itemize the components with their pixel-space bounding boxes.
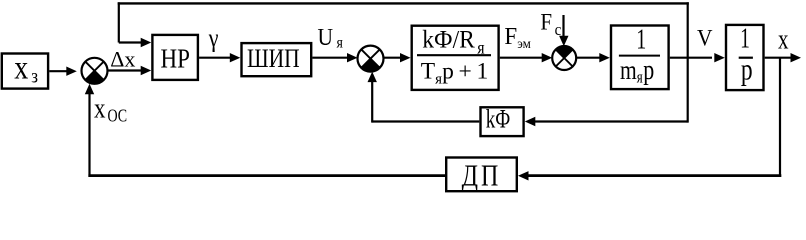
label F_c disturbance [540, 8, 561, 39]
wire HP to ShIP [199, 57, 230, 59]
block X1 "x_z" (setpoint) [2, 54, 48, 89]
label delta-x [110, 47, 135, 72]
fraction bar of W2 [619, 55, 660, 57]
label W3 denominator p [741, 53, 753, 87]
svg-text:V: V [697, 25, 713, 51]
label kF [486, 103, 511, 133]
block U1 "HP" (position regulator) [152, 35, 198, 80]
arrowhead into DP block [518, 171, 529, 180]
wire ShIP to summing junction S2 [312, 57, 347, 59]
svg-text:x: x [778, 25, 789, 56]
label W1 numerator kF/R_ya [422, 26, 485, 58]
svg-text:ШИП: ШИП [247, 45, 300, 74]
label ShIP [247, 45, 300, 74]
arrowhead into S2 [347, 53, 358, 62]
svg-text:kФ: kФ [486, 103, 511, 133]
svg-text:ДП: ДП [462, 159, 502, 192]
summing junction S1 [82, 58, 108, 84]
arrowhead into S2 bottom [368, 72, 377, 83]
wire W2 to W3 [670, 57, 712, 59]
node V vertical feedback line [687, 2, 689, 122]
label W2 denominator m_ya p [620, 54, 654, 86]
wire S3 to W2 [576, 57, 599, 59]
wire F_c disturbance input [562, 15, 564, 36]
svg-text:1: 1 [636, 24, 646, 55]
block W2 integrator 1/(m_ya p) [611, 26, 669, 90]
arrowhead into ShIP [230, 53, 241, 62]
wire kF to S2 vertical [371, 81, 373, 123]
label V [697, 25, 713, 51]
svg-text:p: p [741, 53, 753, 87]
arrowhead into W1 [400, 53, 411, 62]
label F_em [504, 23, 531, 51]
svg-text:1: 1 [740, 23, 750, 54]
block W4 "kF" (EMF coefficient) [481, 107, 524, 136]
arrowhead F_c into S3 top [559, 36, 568, 47]
arrowhead into S1 bottom [85, 84, 94, 95]
block W3 integrator 1/p [726, 25, 764, 90]
label HP [161, 44, 190, 74]
label W1 denominator T_ya p+1 [421, 59, 488, 88]
svg-text:Δx: Δx [110, 47, 135, 72]
wire S1 to HP block [108, 69, 142, 71]
arrowhead into W2 [599, 53, 610, 62]
wire output tap down [779, 58, 781, 177]
wire W3 to output x [765, 57, 791, 59]
block W1 transfer function (kF/R_ya)/(T_ya p+1) [412, 26, 499, 90]
arrowhead into S3 [542, 53, 553, 62]
arrowhead into W3 [714, 53, 725, 62]
label DP [462, 159, 502, 192]
label x_OC feedback [94, 92, 127, 126]
wire S2 to W1 [384, 57, 401, 59]
label x_z [14, 48, 38, 88]
wire bottom feedback up to S1 [88, 94, 90, 178]
wire x_z to summing junction S1 [49, 70, 67, 72]
svg-text:γ: γ [208, 24, 219, 53]
svg-text:НР: НР [161, 44, 190, 74]
arrowhead into HP lower input [141, 66, 152, 75]
label W2 numerator 1 [636, 24, 646, 55]
wire bottom feedback left segment [88, 174, 445, 177]
label U_ya [318, 24, 344, 52]
wire top feedback into HP upper input [119, 41, 141, 43]
label W3 numerator 1 [740, 23, 750, 54]
arrowhead output x [791, 53, 802, 62]
wire kF to S2 horizontal [372, 120, 479, 122]
wire top feedback horizontal [118, 2, 689, 4]
wire kF feedback from node V [535, 120, 688, 122]
arrowhead into HP upper input [141, 38, 152, 47]
wire W1 to summing junction S3 [500, 57, 542, 59]
fraction bar of W1 [417, 54, 491, 56]
label x output [778, 25, 789, 56]
summing junction S2 [358, 46, 384, 72]
arrowhead into kF block [525, 117, 536, 126]
wire bottom feedback right segment [529, 174, 782, 177]
fraction bar of W3 [739, 57, 753, 59]
summing junction S3 [552, 46, 576, 70]
svg-text:Tяp + 1: Tяp + 1 [421, 59, 488, 88]
arrowhead into S1 [66, 67, 77, 76]
wire top feedback left vertical [118, 2, 120, 42]
block W5 "DP" (position sensor) [446, 158, 517, 192]
block U2 "ShIP" (PWM converter) [242, 43, 312, 76]
label gamma [208, 24, 219, 53]
